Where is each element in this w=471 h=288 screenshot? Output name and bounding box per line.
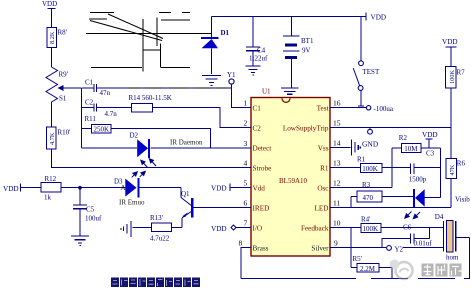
svg-text:A: A	[121, 184, 126, 192]
bus wire left column	[81, 88, 83, 148]
svg-text:LED: LED	[315, 204, 329, 212]
test point -100ua on pin 16	[336, 105, 394, 113]
power VDD above R7	[442, 38, 458, 66]
svg-text:R4': R4'	[361, 216, 370, 224]
svg-text:Q1: Q1	[181, 190, 190, 198]
ground below C5	[71, 236, 89, 246]
svg-text:C6: C6	[403, 224, 412, 232]
resistor R4'	[336, 216, 444, 234]
svg-text:14: 14	[333, 139, 341, 148]
IC pin stubs right	[330, 108, 336, 248]
svg-text:C2: C2	[253, 124, 262, 132]
watermark text blocks	[422, 264, 462, 277]
svg-text:1k: 1k	[44, 194, 52, 202]
svg-text:16: 16	[333, 99, 341, 108]
svg-text:5: 5	[244, 178, 248, 187]
svg-text:13: 13	[333, 159, 341, 168]
node junction R12/C5/D3	[78, 186, 82, 190]
chamber dashed lead	[128, 87, 227, 89]
svg-text:D1: D1	[221, 29, 230, 37]
svg-text:R13': R13'	[150, 214, 163, 222]
LED emission arrows	[405, 212, 420, 219]
svg-text:100K: 100K	[449, 70, 456, 84]
svg-text:6: 6	[244, 198, 248, 207]
svg-text:-100ua: -100ua	[374, 105, 394, 113]
wire buzzer to bottom rail	[456, 238, 470, 279]
ground sideways at R13'	[121, 221, 131, 237]
svg-text:C5: C5	[86, 206, 95, 214]
svg-text:R5': R5'	[353, 255, 362, 263]
svg-text:47K: 47K	[449, 164, 456, 175]
IC U1 BL59A10	[251, 88, 330, 257]
test point Y1	[227, 71, 236, 84]
wire R14 to pin 2	[152, 108, 251, 128]
svg-text:2: 2	[244, 119, 248, 128]
svg-text:47n: 47n	[100, 89, 111, 97]
svg-text:C2: C2	[85, 99, 94, 107]
svg-text:4: 4	[244, 159, 248, 168]
svg-text:Feedback: Feedback	[301, 224, 329, 232]
svg-text:11: 11	[333, 199, 340, 208]
svg-text:C1: C1	[85, 79, 94, 87]
ionization chamber (black lines)	[86, 13, 212, 72]
svg-text:I/O: I/O	[253, 224, 263, 232]
resistor R3 470	[351, 181, 413, 202]
LED D-visible	[414, 189, 470, 207]
svg-text:15: 15	[333, 119, 341, 128]
svg-text:12: 12	[333, 179, 341, 188]
GND label	[362, 140, 379, 149]
svg-text:4.7u22: 4.7u22	[150, 235, 170, 243]
power VDD pin 7	[211, 225, 251, 233]
title blocks (CJK)	[111, 278, 200, 288]
resistor R6	[446, 159, 466, 179]
svg-text:R14 560-11.5K: R14 560-11.5K	[129, 94, 172, 102]
diode D1	[201, 17, 230, 75]
watermark logo	[390, 260, 413, 280]
capacitor C5	[73, 188, 102, 236]
svg-text:R6: R6	[457, 160, 466, 168]
svg-text:Visib: Visib	[455, 195, 470, 203]
wire pin 11 row	[336, 197, 451, 208]
svg-text:D2: D2	[130, 132, 139, 140]
battery BT1	[283, 17, 314, 88]
resistor R8'	[47, 28, 67, 48]
svg-text:R12: R12	[45, 175, 57, 183]
svg-text:D4: D4	[435, 213, 444, 221]
VDD label top-left	[42, 0, 57, 8]
ground below BT1	[281, 88, 299, 94]
power VDD top-left	[48, 9, 56, 28]
buzzer D4	[435, 213, 459, 262]
resistor R12	[41, 175, 80, 202]
svg-text:10: 10	[333, 219, 341, 228]
wire Y1 to pin 1	[232, 84, 252, 107]
svg-text:U1: U1	[262, 88, 271, 96]
capacitor C2	[82, 99, 132, 119]
resistor R1	[336, 156, 392, 174]
wire pin 9 / test point Y2	[336, 246, 444, 254]
svg-text:Osc: Osc	[317, 184, 328, 192]
wire R6 down to pin 11 row	[450, 179, 452, 208]
power VDD bottom-left	[3, 184, 41, 194]
svg-text:470: 470	[363, 194, 374, 202]
wire pin 10 to R5' row	[350, 228, 352, 268]
LED D3 IR emitter	[114, 178, 181, 207]
svg-text:R10': R10'	[58, 129, 71, 137]
IR Daemon label	[170, 139, 203, 147]
test point GND under pin 15	[368, 128, 373, 135]
svg-text:Y2: Y2	[395, 246, 404, 254]
svg-text:0.01uf: 0.01uf	[414, 240, 433, 248]
pin numbers right	[333, 99, 341, 248]
wire pin 8 Brass to bottom rail	[241, 248, 251, 279]
bottom rail	[241, 277, 470, 279]
wire R7 to R6	[450, 88, 452, 159]
resistor R5'	[351, 255, 392, 278]
svg-text:10M: 10M	[404, 145, 418, 153]
svg-text:100K: 100K	[362, 165, 378, 173]
svg-text:1500p: 1500p	[409, 176, 427, 184]
svg-text:VDD: VDD	[442, 38, 458, 46]
svg-text:R8': R8'	[58, 29, 67, 37]
capacitor C6	[382, 224, 432, 248]
svg-text:Silver: Silver	[311, 244, 329, 252]
svg-text:2.2M: 2.2M	[360, 265, 376, 273]
svg-text:IRED: IRED	[253, 204, 270, 212]
svg-text:R9': R9'	[59, 71, 68, 79]
D3 emission arrows	[132, 171, 146, 177]
svg-text:Brass: Brass	[253, 244, 269, 252]
resistor R13'	[133, 214, 183, 243]
photodiode D2	[82, 132, 252, 159]
svg-text:Vss: Vss	[318, 144, 329, 152]
svg-text:3: 3	[244, 139, 248, 148]
svg-text:BT1: BT1	[301, 37, 314, 45]
svg-text:R1: R1	[357, 156, 366, 164]
svg-text:VDD: VDD	[422, 131, 438, 139]
svg-text:9: 9	[334, 239, 338, 248]
svg-text:4.7n: 4.7n	[105, 110, 118, 118]
svg-text:VDD: VDD	[371, 14, 387, 22]
resistor R11	[82, 115, 211, 148]
D2 incoming arrows	[141, 159, 156, 168]
svg-text:9V: 9V	[302, 47, 311, 55]
svg-text:VDD: VDD	[42, 0, 57, 8]
svg-text:Vdd: Vdd	[253, 184, 266, 192]
resistor R2	[392, 134, 440, 153]
transistor Q1	[181, 188, 251, 228]
svg-text:R7: R7	[457, 69, 466, 77]
svg-text:R1: R1	[320, 164, 329, 172]
resistor R10'	[47, 127, 71, 149]
svg-text:BL59A10: BL59A10	[279, 177, 308, 185]
wire pin 15 to right column	[336, 127, 451, 129]
IC left pin labels	[253, 104, 272, 252]
svg-text:S1: S1	[59, 95, 67, 103]
svg-text:8: 8	[239, 239, 243, 248]
capacitor C1	[82, 79, 232, 98]
svg-text:100uf: 100uf	[85, 215, 102, 223]
potentiometer R9' / S1	[46, 67, 68, 127]
wire R10' to Strobe pin 4	[52, 149, 252, 168]
pin numbers left	[239, 99, 248, 248]
svg-text:IR Emuo: IR Emuo	[119, 199, 145, 207]
capacitor C4	[246, 17, 268, 66]
svg-text:R11: R11	[85, 115, 97, 123]
svg-text:1: 1	[244, 99, 248, 108]
capacitor C3	[392, 150, 440, 184]
power VDD tap above R2	[422, 131, 438, 148]
svg-text:VDD: VDD	[211, 185, 227, 193]
wire wiper to bus	[63, 87, 82, 89]
svg-text:4.7K: 4.7K	[49, 132, 56, 145]
svg-text:C1: C1	[253, 104, 262, 112]
svg-text:Y1: Y1	[227, 71, 236, 79]
resistor R7	[446, 66, 466, 88]
svg-text:Detect: Detect	[253, 144, 272, 152]
svg-text:R2: R2	[399, 134, 408, 142]
top power rail	[212, 16, 366, 18]
svg-text:C3: C3	[426, 150, 435, 158]
wire node to D3	[80, 187, 125, 189]
ground below C4	[246, 66, 261, 75]
wire pin 12 Osc	[336, 148, 392, 188]
svg-text:VDD: VDD	[211, 225, 227, 233]
svg-text:250K: 250K	[94, 126, 110, 134]
svg-text:TEST: TEST	[363, 68, 380, 76]
svg-text:Strobe: Strobe	[253, 164, 272, 172]
svg-text:IR Daemon: IR Daemon	[170, 139, 203, 147]
svg-text:Test: Test	[317, 104, 329, 112]
svg-text:8.2K: 8.2K	[49, 31, 56, 44]
wire R8' to pot	[51, 48, 53, 68]
switch TEST	[353, 17, 380, 106]
svg-text:VDD: VDD	[3, 185, 19, 193]
svg-text:1t22uf: 1t22uf	[249, 55, 268, 63]
wire R2/C3 to LED anode	[439, 148, 441, 197]
svg-text:LowSupplyTrip: LowSupplyTrip	[283, 124, 329, 132]
svg-text:100K: 100K	[363, 225, 379, 233]
resistor R14	[129, 94, 172, 112]
svg-text:R3: R3	[362, 181, 371, 189]
svg-text:hom: hom	[446, 254, 459, 262]
ground sideways at pin 14	[352, 140, 361, 156]
IC right pin labels	[283, 104, 329, 252]
power VDD pin 5	[211, 184, 251, 193]
svg-text:C4: C4	[257, 47, 266, 55]
IC pin stubs left	[241, 108, 251, 248]
svg-text:GND: GND	[362, 140, 379, 149]
svg-text:7: 7	[244, 219, 248, 228]
VDD label top-right	[366, 13, 386, 22]
wire pin 14 Vss	[336, 147, 351, 149]
ground below D1	[202, 76, 221, 86]
